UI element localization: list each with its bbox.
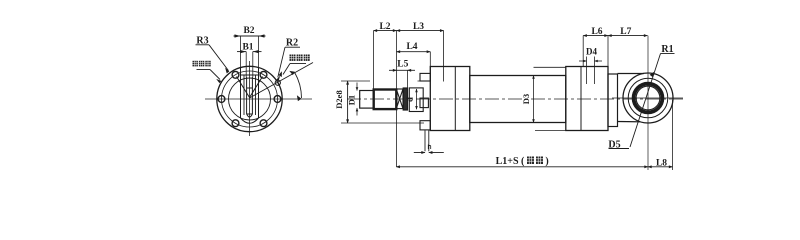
svg-text:D3: D3 — [521, 94, 531, 104]
top dimension row L2 L3 — [374, 30, 397, 32]
eye inner hole — [636, 86, 660, 110]
flange vertical centerline — [249, 61, 251, 136]
R2 underline — [285, 46, 300, 48]
dimension B2 — [243, 26, 254, 36]
piston rod — [360, 91, 374, 109]
dimension d (inside gland) — [416, 89, 418, 109]
tube socket line top — [534, 66, 566, 68]
cushion valve arrowhead — [279, 71, 282, 77]
head center boss — [420, 98, 428, 108]
bolt hole 240deg — [232, 120, 239, 127]
cylinder tube — [470, 76, 566, 123]
svg-text:D1: D1 — [347, 95, 357, 105]
D1 label — [347, 95, 357, 105]
shared extension line at rod shoulder — [396, 31, 398, 167]
dimension D2e8 (far left vertical) — [347, 81, 349, 123]
svg-text:L1+S (: L1+S ( — [496, 156, 525, 167]
rear block C — [566, 67, 608, 131]
wrench flat X-box — [396, 89, 403, 109]
rod collar — [403, 88, 407, 110]
eye outer circle — [623, 73, 673, 123]
cushion valve leader — [283, 64, 290, 75]
boss inner slot bottom arc — [247, 114, 253, 117]
central boss outer rect — [241, 68, 259, 119]
cushion valve label (CJK glyph blocks) — [290, 55, 310, 61]
rod thread block — [374, 90, 397, 110]
dimension L8 — [648, 166, 673, 168]
bottom dimension L1+S — [396, 166, 648, 168]
svg-text:L3: L3 — [413, 22, 424, 32]
angle arc arrowheads — [297, 95, 302, 101]
dimension L4 — [397, 51, 431, 53]
bolt hole 60deg — [260, 71, 267, 78]
svg-text:L2: L2 — [379, 22, 390, 32]
exhaust valve label (CJK glyph blocks) — [193, 61, 211, 67]
eye plate bottom line — [618, 121, 641, 123]
D5 label — [608, 140, 620, 151]
svg-text:B2: B2 — [243, 26, 254, 36]
svg-text:D4: D4 — [586, 47, 597, 57]
angle reference line 30deg — [250, 63, 314, 99]
tube socket line bottom — [535, 129, 567, 131]
svg-text:D2e8: D2e8 — [334, 90, 344, 108]
eye horizontal centerline — [612, 97, 683, 99]
dimension row L6 L7 — [583, 35, 608, 37]
D2 extension lines — [341, 81, 424, 123]
R1-D5 leader diagonal — [630, 54, 661, 148]
head top tab — [420, 73, 430, 81]
dimension D3 — [533, 76, 535, 123]
head block B — [430, 67, 470, 131]
svg-text:L5: L5 — [397, 60, 408, 70]
R1 underline — [661, 53, 675, 55]
R3 label — [196, 36, 208, 47]
V leg right — [250, 77, 263, 98]
R2 label — [286, 38, 298, 49]
D4 label — [586, 47, 597, 57]
B1 extension lines — [245, 52, 247, 77]
svg-text:L6: L6 — [591, 27, 602, 37]
svg-text:B1: B1 — [242, 43, 253, 53]
pilot circle D2 — [229, 78, 271, 120]
L2 left extension line — [373, 31, 375, 90]
flange horizontal centerline — [205, 98, 312, 100]
R3 arrowhead on outer circle — [225, 68, 229, 74]
eye ring circle — [628, 78, 668, 118]
R1 label — [661, 44, 673, 55]
R2 arrowhead on outer circle — [276, 75, 280, 81]
lower port below head — [425, 131, 429, 152]
eye plate top line — [618, 73, 645, 75]
boss bottom arc — [241, 118, 259, 123]
D4 arrows — [579, 60, 587, 62]
eye bracket — [608, 74, 618, 127]
bolt hole 120deg — [232, 71, 239, 78]
L6 left extension — [582, 36, 584, 67]
bolt hole 0deg — [274, 96, 281, 103]
radius line R3 leader — [209, 45, 229, 71]
exhaust valve underline — [197, 69, 211, 71]
V leg left — [237, 77, 250, 98]
radius line R2 leader — [278, 47, 285, 77]
svg-text:d: d — [405, 97, 415, 102]
cushion valve underline — [290, 63, 306, 65]
main centerline — [347, 98, 684, 100]
flange outer circle — [217, 66, 282, 131]
bolt circle — [222, 71, 278, 127]
boss middle pair — [244, 75, 256, 115]
angle dimension arc — [295, 72, 302, 98]
svg-text:L8: L8 — [656, 158, 667, 168]
dimension D1 arrows — [356, 83, 358, 91]
L8 right extension — [672, 100, 674, 170]
B2 extension lines — [240, 36, 242, 68]
gland box — [409, 88, 423, 112]
exhaust valve leader — [210, 70, 220, 80]
rear port hidden hole (D4) — [587, 57, 595, 85]
dimension L5 — [389, 69, 397, 71]
eye vertical centerline / L7 extension — [647, 36, 649, 170]
bolt hole 300deg — [260, 120, 267, 127]
boss inner slot — [247, 77, 253, 114]
eye bushing ring (thick) — [634, 84, 663, 113]
head block divider — [454, 67, 456, 131]
L3 right extension line — [443, 31, 445, 82]
bolt hole 180deg — [218, 96, 225, 103]
svg-text:L4: L4 — [406, 42, 417, 52]
R1 arrowhead — [650, 72, 655, 78]
R3 underline — [196, 44, 210, 46]
cushion valve circle — [275, 80, 280, 85]
rear block divider — [580, 67, 582, 131]
exhaust valve arrowhead — [216, 79, 221, 83]
stroke CJK glyph blocks — [527, 157, 543, 165]
D5 underline — [609, 148, 630, 150]
dimension B1 — [242, 43, 253, 53]
head bottom tab — [420, 121, 430, 130]
L6/L7 shared extension — [607, 36, 609, 74]
svg-text:): ) — [545, 156, 548, 167]
svg-text:L7: L7 — [620, 27, 631, 37]
